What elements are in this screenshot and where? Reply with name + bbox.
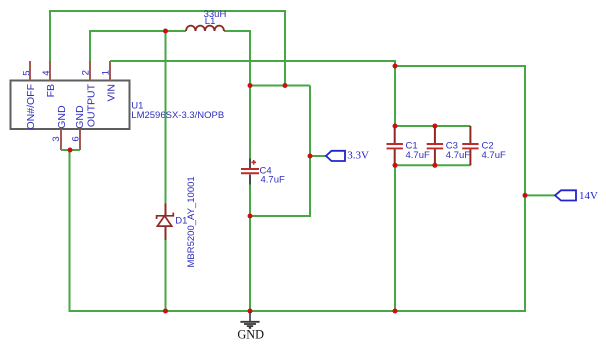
svg-text:MBR5200_AY_10001: MBR5200_AY_10001 (186, 176, 197, 267)
svg-text:ON#/OFF: ON#/OFF (25, 84, 37, 130)
svg-text:4.7uF: 4.7uF (406, 150, 430, 161)
svg-text:L1: L1 (205, 16, 216, 27)
svg-text:GND: GND (237, 327, 264, 341)
svg-text:4.7uF: 4.7uF (482, 150, 506, 161)
svg-text:FB: FB (45, 84, 57, 97)
svg-text:VIN: VIN (106, 84, 118, 102)
svg-text:LM2596SX-3.3/NOPB: LM2596SX-3.3/NOPB (131, 110, 224, 121)
svg-text:4.7uF: 4.7uF (446, 150, 470, 161)
svg-text:OUTPUT: OUTPUT (86, 83, 98, 127)
svg-text:3.3V: 3.3V (347, 149, 369, 161)
svg-text:14V: 14V (579, 190, 598, 202)
svg-text:4.7uF: 4.7uF (261, 175, 285, 186)
svg-text:GND: GND (56, 105, 68, 129)
svg-text:GND: GND (74, 105, 86, 129)
